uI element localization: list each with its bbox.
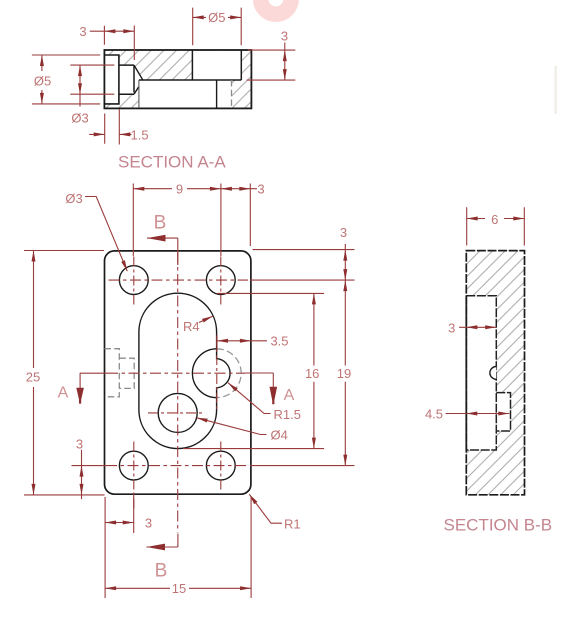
hidden tab rect 1 [105, 349, 120, 397]
dim 9 and 3 top lines [133, 184, 257, 257]
centerline top holes [109, 279, 249, 281]
dim 3.5 lines [217, 335, 267, 351]
arrow leader R1.5 [227, 381, 238, 391]
svg-text:15: 15 [172, 581, 186, 596]
arrows 4.5 B-B [466, 412, 477, 416]
watermark ring [261, 0, 291, 14]
dim 1.5 A-A bottom lines [89, 109, 131, 144]
centerline vertical main [177, 253, 179, 533]
leader O3 [85, 197, 127, 272]
hatch body B-B [466, 251, 524, 495]
hidden tab rect 2 [119, 358, 134, 388]
section line B top [147, 238, 178, 265]
section line A right [245, 373, 273, 387]
section arrow A left [76, 388, 84, 404]
arrows 3 A-A right [283, 50, 287, 61]
A-A outer outline [104, 50, 251, 108]
B-B notch outline [466, 296, 496, 450]
circle D5 counterbore hidden right half [217, 349, 241, 398]
section arrow B top [147, 235, 166, 242]
arrows dim 3 A-A top [104, 29, 115, 33]
hole bottom-right [206, 451, 235, 480]
white hole rect [119, 65, 134, 94]
arrow leader O3 [121, 260, 129, 272]
arrows 6 [467, 217, 478, 221]
arrows 3 B-B [466, 325, 477, 329]
white notch [466, 296, 497, 450]
arrow leader R4 [202, 314, 214, 322]
arrows 3 right chained [343, 250, 347, 261]
dim 3 B-B lines [459, 326, 496, 328]
svg-text:SECTION B-B: SECTION B-B [444, 516, 553, 535]
svg-text:Ø3: Ø3 [65, 191, 82, 206]
A-A cone diagonals [134, 65, 143, 94]
svg-text:Ø3: Ø3 [71, 111, 88, 126]
white cone polygon [134, 65, 143, 94]
hole bottom-left [119, 451, 148, 480]
white top counterbore region [192, 51, 241, 80]
svg-text:19: 19 [337, 366, 351, 381]
dim 3 A-A top-left lines [90, 26, 135, 61]
dim 3 bottom lines [105, 496, 134, 599]
svg-text:6: 6 [491, 212, 498, 227]
A-A hidden hole edge [231, 80, 233, 108]
dim O3 A-A left lines [70, 65, 114, 106]
section line B bottom [146, 534, 178, 547]
plate outline [105, 251, 251, 494]
arrow leader O4 [196, 416, 208, 423]
svg-text:SECTION A-A: SECTION A-A [118, 153, 226, 172]
white R1.5 column [217, 80, 232, 108]
hole top-left [119, 266, 148, 295]
section line A left [80, 373, 107, 388]
centerline D4 horizontal [148, 412, 202, 414]
svg-text:1.5: 1.5 [131, 128, 149, 143]
dim 6 B-B lines [467, 207, 525, 245]
svg-text:3: 3 [145, 516, 152, 531]
dim 3 19 right lines [250, 244, 355, 466]
arrows 16 [312, 293, 316, 304]
svg-text:3: 3 [340, 225, 347, 240]
arrows 3 left-bottom [80, 466, 84, 477]
arrows 19 [343, 280, 347, 291]
arrows 3 bottom [105, 521, 116, 525]
arrows 9 [133, 187, 144, 191]
A-A step line [139, 79, 241, 81]
slot outline [139, 293, 230, 448]
dim 16 right lines [183, 293, 324, 448]
svg-text:B: B [154, 213, 167, 234]
centerline A-A cut [107, 372, 245, 374]
svg-text:3: 3 [79, 24, 86, 39]
leader R1 [249, 494, 282, 523]
B-B drill point semicircle [490, 367, 496, 380]
leader O4 [197, 418, 267, 435]
svg-text:Ø4: Ø4 [271, 428, 288, 443]
circle D5 counterbore solid left half [192, 349, 216, 398]
svg-text:3: 3 [448, 321, 455, 336]
arrows O5 A-A top [193, 15, 204, 19]
arrows 3.5 [217, 339, 228, 343]
centerline hole BR vertical [220, 442, 222, 491]
svg-text:A: A [284, 387, 295, 404]
centerline hole TR vertical [220, 257, 222, 305]
svg-text:B: B [155, 561, 168, 582]
dim 3 left-bottom lines [72, 450, 107, 499]
svg-text:R1: R1 [284, 517, 301, 532]
A-A counterbore outline [104, 55, 119, 104]
B-B outer outline [466, 251, 524, 495]
svg-text:3: 3 [257, 182, 264, 197]
svg-text:R1.5: R1.5 [274, 407, 301, 422]
centerline hole TL vertical [133, 257, 135, 305]
leader R1.5 [228, 383, 271, 414]
arrows 1.5 [94, 132, 105, 136]
dim 4.5 B-B lines [446, 413, 510, 415]
svg-text:3: 3 [76, 437, 83, 452]
B-B left cut edge solid [465, 296, 467, 450]
A-A hole lines [119, 65, 134, 94]
arrows 25 [32, 251, 36, 262]
centerline counterbore vertical [216, 336, 218, 412]
dim O5 A-A left lines [32, 55, 100, 104]
dim 15 bottom lines [105, 497, 251, 598]
B-B step outline [496, 393, 510, 431]
svg-text:A: A [58, 385, 69, 402]
A-A slot left edge [138, 80, 140, 108]
dim 3 A-A right lines [247, 43, 296, 81]
watermark faint line right edge [555, 66, 557, 114]
circle D4 [158, 393, 197, 432]
svg-text:16: 16 [305, 366, 319, 381]
white step [496, 393, 510, 431]
svg-text:3: 3 [281, 29, 288, 44]
arrows O5 A-A left [40, 55, 44, 66]
leader R4 [199, 316, 213, 322]
white slot region [139, 80, 217, 108]
section arrow B bottom [146, 544, 165, 551]
centerline hole BL vertical [133, 442, 135, 510]
arrow leader R1 [248, 493, 258, 504]
svg-text:9: 9 [176, 182, 183, 197]
svg-text:25: 25 [26, 370, 40, 385]
svg-text:R4: R4 [183, 319, 200, 334]
svg-text:Ø5: Ø5 [34, 74, 51, 89]
white counterbore rect [104, 55, 119, 104]
arrows O3 A-A left [78, 65, 82, 76]
arrows 3 top chained [221, 187, 232, 191]
section arrow A right [270, 387, 278, 405]
A-A top hole edges [192, 50, 241, 80]
centerline bottom holes [106, 465, 248, 467]
dim 25 left lines [24, 251, 105, 495]
arrows 15 [105, 586, 116, 590]
svg-text:3.5: 3.5 [270, 334, 288, 349]
dim O5 A-A top lines [193, 8, 242, 46]
hatch body A-A [104, 50, 251, 108]
hole top-right [206, 266, 235, 295]
svg-text:Ø5: Ø5 [208, 10, 225, 25]
svg-text:4.5: 4.5 [425, 407, 443, 422]
A-A slot right edge [216, 80, 218, 108]
